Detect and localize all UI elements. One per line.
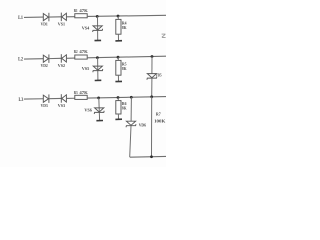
svg-text:R7: R7 [156,112,162,117]
ground (R5) [115,80,122,82]
wire R1 to right edge [87,15,166,16]
ground (VS4) [95,39,102,41]
svg-text:VD1: VD1 [41,22,48,27]
wire VD6 to bottom rail [130,126,131,157]
diode VS3 [61,94,66,103]
wire down to VS5 [97,58,99,81]
zener diode VS4 [93,26,103,32]
svg-text:100K: 100K [154,118,166,123]
wire down to R4 [117,16,119,19]
zener diode VD5 [147,74,157,80]
resistor R3 [75,95,87,99]
zener diode VD6 [126,121,136,127]
bottom rail wire [130,155,166,158]
wire row2 down to VD5 [151,57,153,74]
wire VS2 to R2 [66,57,74,59]
diode VD1 [43,13,49,21]
svg-text:L1: L1 [18,15,23,21]
node junction row3/R7 line [150,95,153,98]
resistor R4 [116,19,121,34]
resistor R6 [116,101,121,114]
wire L3 to VD3 [24,98,43,100]
svg-text:VS6: VS6 [84,107,92,112]
node junction row1/R4 [117,15,120,18]
node junction row3/R6 [117,96,120,99]
wire VS3 to R3 [66,97,74,99]
svg-text:8K: 8K [122,66,127,71]
resistor R2 [75,55,87,59]
wire R3 to right edge [87,97,166,98]
svg-text:VS5: VS5 [82,66,90,71]
zener diode VS6 [94,108,104,114]
node junction row3/VS6 [97,96,100,99]
svg-text:47K: 47K [79,49,88,54]
node junction bottom rail/R7 [150,155,153,158]
svg-text:47K: 47K [79,8,88,13]
node junction row3/VD6 branch [130,96,133,99]
wire VS1 to R1 [66,16,74,18]
wire VD5 to row3 [151,78,153,97]
wire down to VS6 [98,98,101,121]
svg-text:VS2: VS2 [58,63,65,68]
zener diode VS5 [93,66,103,72]
wire R2 to right edge [87,56,166,58]
wire row3 down to VD6 [130,97,132,121]
wire down to R5 [117,57,119,60]
diode VS1 [61,13,66,22]
wire R4 to ground [117,34,119,40]
svg-text:8K: 8K [122,25,127,30]
svg-text:VD3: VD3 [41,103,49,108]
svg-text:R1: R1 [74,8,78,13]
resistor R1 [75,14,87,18]
svg-text:VS1: VS1 [58,22,65,27]
diode VS2 [61,54,66,63]
wire down to VS4 [97,16,99,40]
svg-text:VD6: VD6 [139,122,147,127]
wire VD1 to VS1 [49,16,61,18]
ground (R6) [115,118,122,120]
svg-text:R2: R2 [74,49,78,54]
diode VD3 [43,94,49,103]
node junction row1/VS4 [96,15,99,18]
resistor R5 [116,60,121,75]
svg-text:47K: 47K [79,90,88,95]
svg-text:VS3: VS3 [58,103,66,108]
wire L1 to VD1 [24,16,43,18]
svg-text:L3: L3 [19,97,24,103]
svg-text:VD2: VD2 [41,63,48,68]
wire L2 to VD2 [24,58,43,60]
node junction row2/R7 branch [151,55,154,58]
wire VD2 to VS2 [49,57,61,59]
svg-text:VD5: VD5 [156,73,162,78]
ground (VS6) [96,120,103,122]
svg-text:L2: L2 [18,57,23,63]
svg-text:R3: R3 [74,90,78,95]
wire R5 to ground [117,75,119,81]
wire R7 line row3 to bottom rail [151,97,153,157]
wire R6 to ground [117,114,119,119]
partial symbol at right edge [162,34,166,37]
ground (VS5) [95,79,102,81]
wire VD3 to VS3 [49,97,61,99]
wire down to R6 [117,98,119,101]
svg-text:VS4: VS4 [82,26,90,31]
diode VD2 [43,54,49,63]
svg-text:8K: 8K [122,106,127,111]
ground (R4) [115,40,122,42]
node junction row2/R5 [117,56,120,59]
node junction row2/VS5 [96,56,99,59]
